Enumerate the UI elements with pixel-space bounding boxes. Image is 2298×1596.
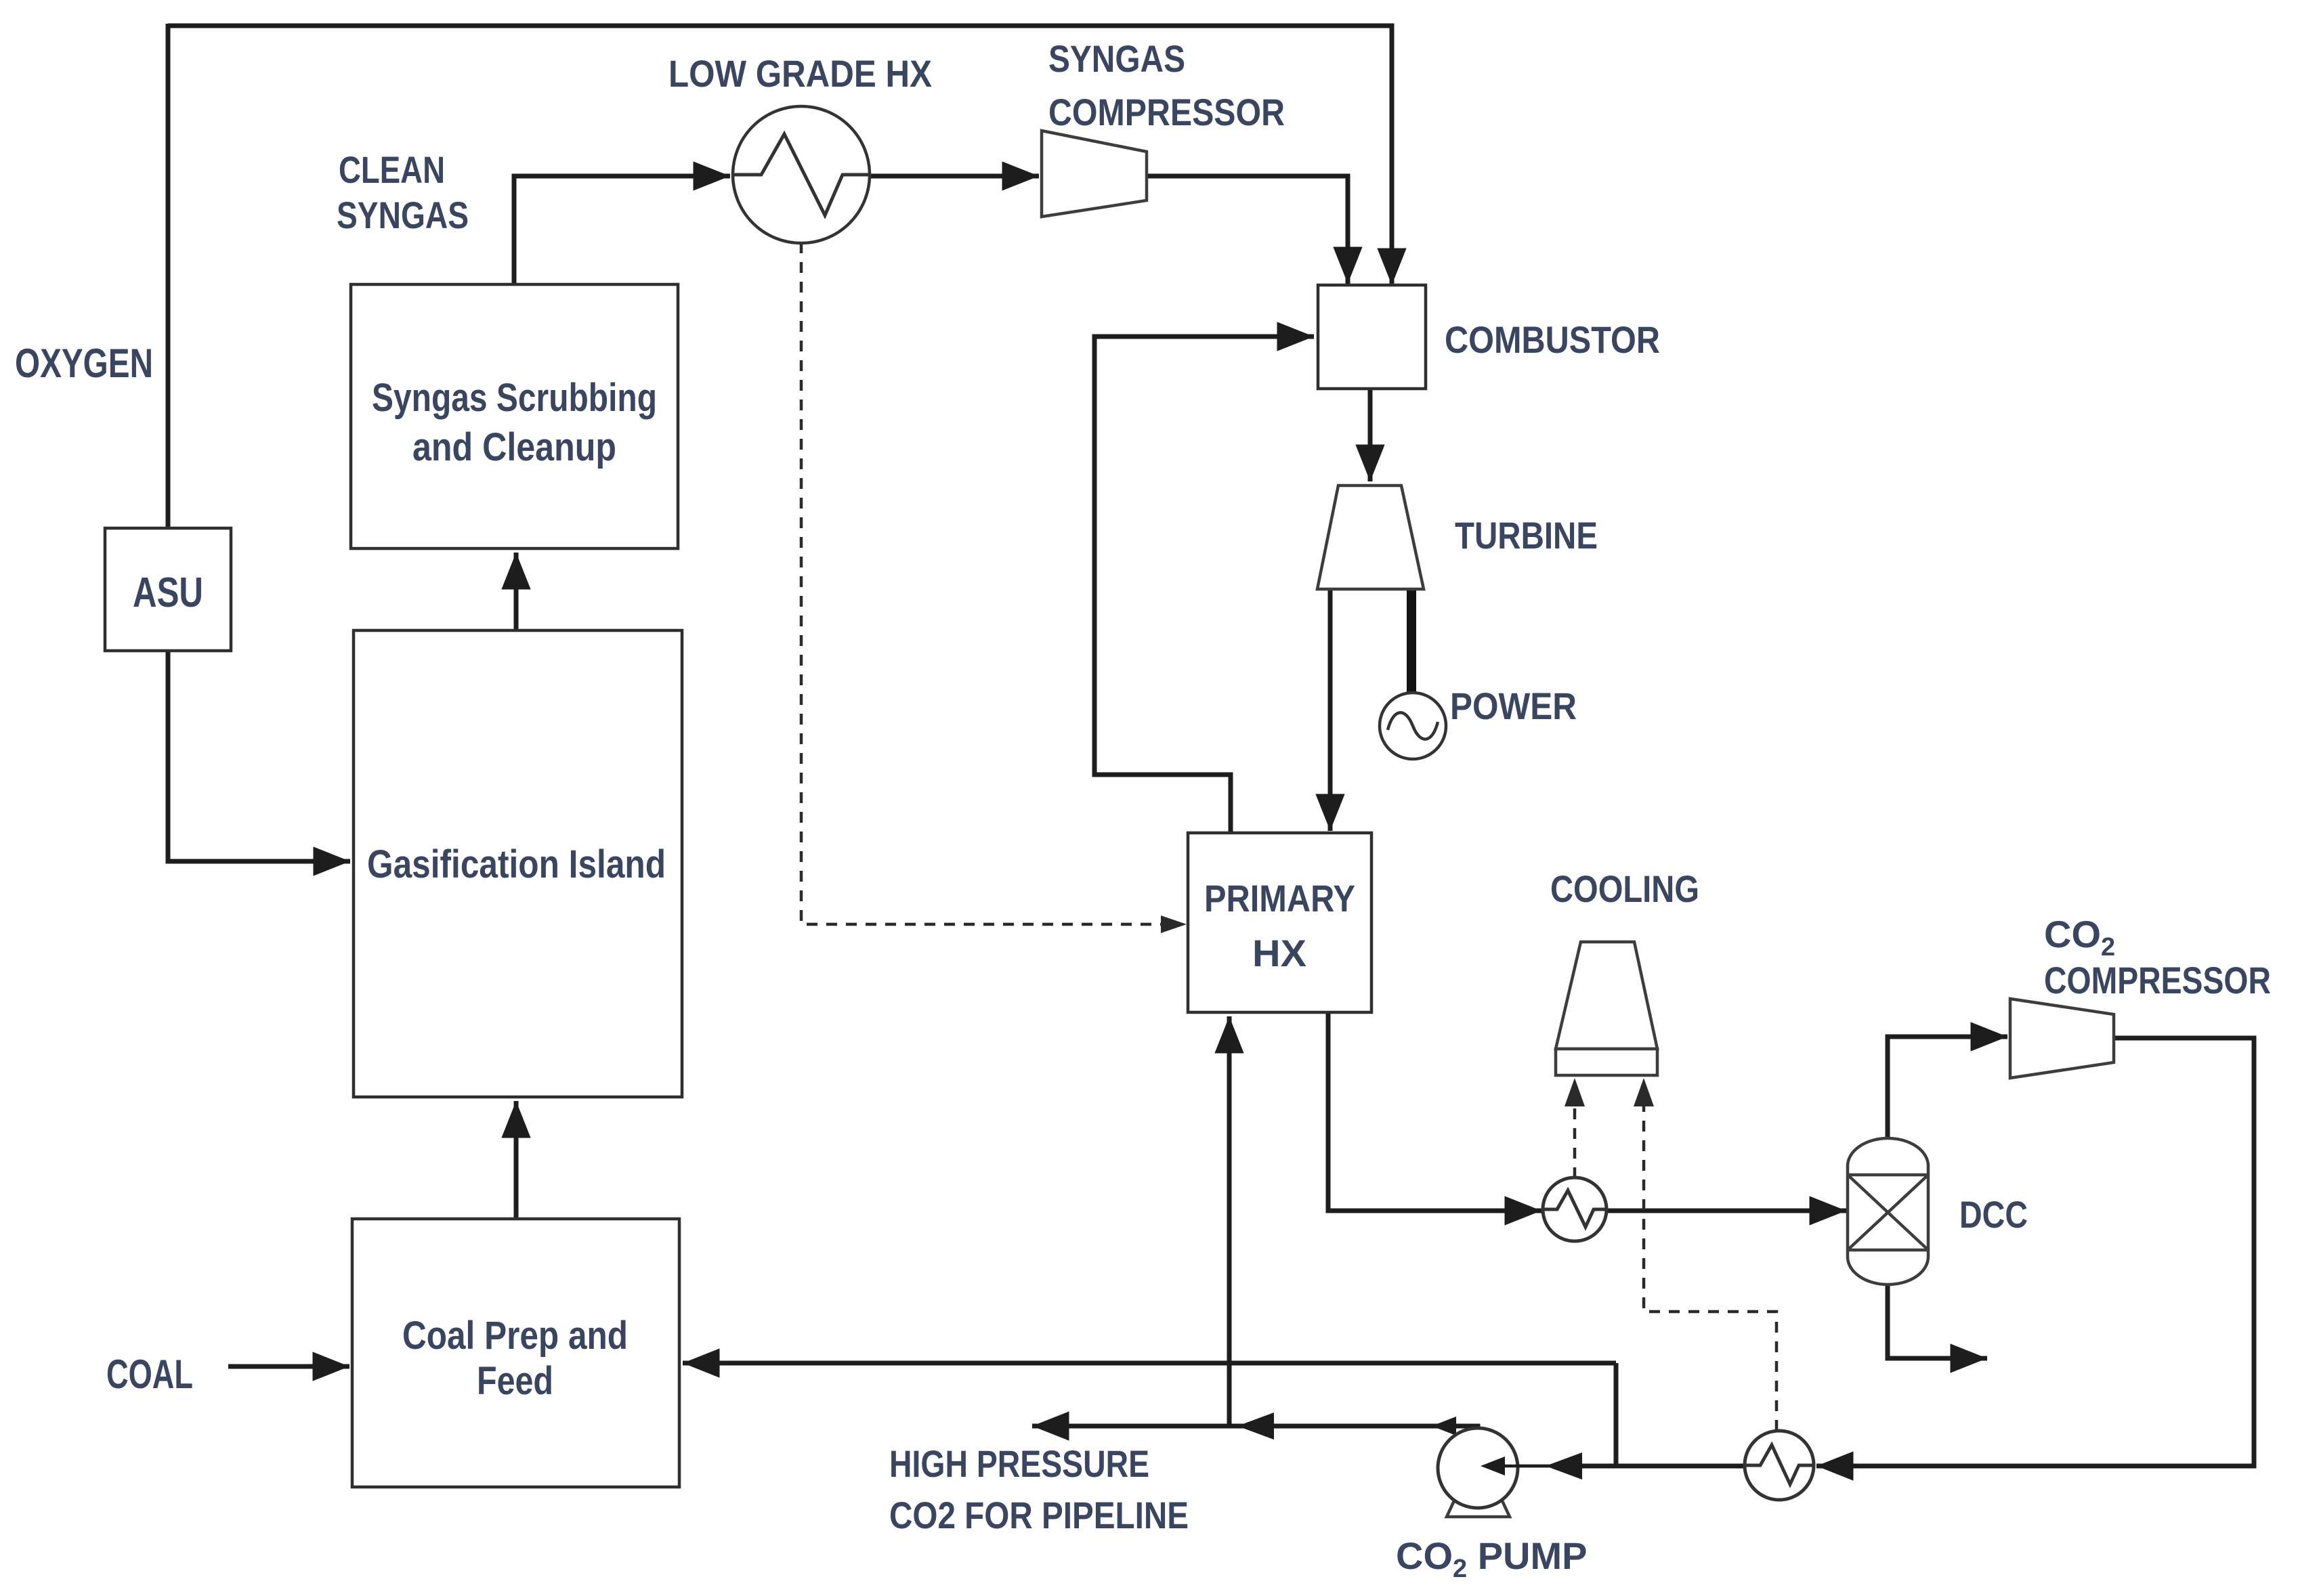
wire gasification island to syngas scrubbing [514, 553, 519, 630]
wire combustor to turbine [1368, 389, 1373, 481]
wire clean syngas from scrubbing to low grade HX [514, 176, 730, 284]
combustor box [1318, 285, 1426, 389]
wire CO2 pump discharge pipeline [1032, 1426, 1478, 1430]
turbine shaft to generator [1407, 588, 1416, 697]
low grade HX exchanger circle [733, 106, 870, 243]
svg-text:and Cleanup: and Cleanup [412, 425, 616, 469]
svg-text:Feed: Feed [477, 1359, 553, 1403]
svg-text:CO2: CO2 [2044, 913, 2115, 962]
wire primary HX to cooler 1 [1328, 1012, 1541, 1211]
svg-text:Gasification Island: Gasification Island [367, 842, 666, 886]
wire coal feed arrow [228, 1364, 349, 1369]
dashed wire cooler 1 to cooling tower [1573, 1105, 1577, 1178]
cooler 2 exchanger circle [1745, 1431, 1814, 1500]
arrow on pipeline at pump outlet [1432, 1417, 1456, 1436]
svg-text:SYNGAS: SYNGAS [1048, 37, 1185, 80]
CO2 compressor trapezoid [2010, 999, 2114, 1078]
wire pump inlet into circle [1490, 1465, 1552, 1468]
primary HX box [1188, 833, 1371, 1012]
DCC vessel [1848, 1138, 1928, 1285]
syngas scrubbing and cleanup box [351, 284, 678, 548]
svg-text:SYNGAS: SYNGAS [337, 194, 469, 236]
wire low grade HX to syngas compressor [870, 174, 1039, 179]
svg-text:DCC: DCC [1959, 1193, 2028, 1236]
dashed wire low grade HX to primary HX [801, 242, 1162, 924]
syngas compressor trapezoid [1042, 131, 1147, 217]
svg-text:OXYGEN: OXYGEN [15, 341, 153, 386]
wire ASU to gasification island [168, 651, 350, 861]
wire junction riser to recycle line [1614, 1363, 1619, 1466]
wire turbine exhaust to primary HX [1328, 589, 1333, 831]
wire cooler 1 to DCC [1606, 1209, 1846, 1213]
wire riser from pipeline to primary HX bottom [1227, 1016, 1232, 1426]
gasification island box [354, 630, 682, 1097]
svg-text:COOLING: COOLING [1550, 867, 1699, 910]
svg-text:TURBINE: TURBINE [1455, 514, 1598, 557]
svg-text:COMPRESSOR: COMPRESSOR [2044, 959, 2271, 1001]
arrow on pump inlet [1546, 1452, 1582, 1480]
svg-text:CO2 FOR PIPELINE: CO2 FOR PIPELINE [889, 1494, 1189, 1536]
wire cooler 2 to CO2 pump [1578, 1464, 1745, 1469]
turbine trapezoid [1317, 486, 1424, 589]
dashed wire cooler 2 to cooling tower [1644, 1105, 1776, 1431]
wire recycle primary HX to combustor [1094, 337, 1314, 833]
svg-text:CO2 PUMP: CO2 PUMP [1396, 1534, 1588, 1583]
arrow on pipeline at HX riser junction [1237, 1412, 1274, 1440]
cooling tower [1556, 942, 1657, 1049]
power generator circle [1380, 693, 1446, 759]
wire syngas compressor to combustor [1147, 176, 1348, 284]
svg-text:POWER: POWER [1450, 685, 1577, 727]
cooler 1 exchanger circle [1543, 1178, 1607, 1241]
svg-text:Coal Prep and: Coal Prep and [402, 1314, 628, 1358]
wire DCC top to CO2 compressor [1888, 1037, 2007, 1138]
wire oxygen vertical from top border to ASU [166, 24, 171, 528]
ASU box [105, 528, 231, 651]
coal prep and feed box [352, 1219, 679, 1487]
wire coal prep to gasification island [514, 1101, 519, 1219]
svg-text:COMBUSTOR: COMBUSTOR [1445, 318, 1660, 361]
svg-text:ASU: ASU [133, 569, 203, 616]
svg-text:COAL: COAL [106, 1352, 193, 1397]
wire DCC bottom vent [1888, 1285, 1987, 1358]
svg-text:Syngas Scrubbing: Syngas Scrubbing [372, 376, 657, 420]
wire CO2 compressor to cooler 2 [1816, 1038, 2254, 1466]
wire top border from oxygen line to combustor drop [168, 26, 1392, 285]
svg-text:COMPRESSOR: COMPRESSOR [1048, 91, 1285, 133]
svg-text:HIGH PRESSURE: HIGH PRESSURE [889, 1442, 1149, 1485]
svg-text:PRIMARY: PRIMARY [1204, 877, 1355, 920]
svg-text:LOW GRADE HX: LOW GRADE HX [668, 52, 932, 95]
svg-text:HX: HX [1252, 932, 1306, 974]
CO2 pump circle and stand [1447, 1496, 1510, 1517]
svg-text:CLEAN: CLEAN [339, 148, 445, 191]
wire CO2 recycle to coal prep [683, 1361, 1616, 1366]
